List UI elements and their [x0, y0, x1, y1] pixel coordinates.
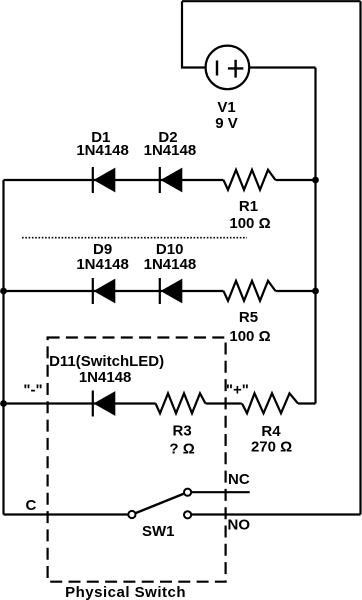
svg-text:D11(SwitchLED): D11(SwitchLED): [49, 353, 164, 370]
resistor R5: [224, 281, 276, 301]
resistor R3: [156, 393, 206, 413]
diode D1: [93, 167, 116, 193]
svg-text:? Ω: ? Ω: [169, 441, 194, 458]
wire: common C to switch pole: [4, 513, 129, 515]
svg-text:9 V: 9 V: [215, 115, 238, 132]
wire: top horizontal: [182, 0, 361, 2]
junction: row2 / left vertical: [0, 288, 7, 295]
svg-text:R1: R1: [239, 198, 258, 215]
svg-text:R3: R3: [173, 423, 192, 440]
junction: row3 / left vertical: [0, 400, 7, 407]
diode D11: [93, 391, 116, 417]
svg-text:R5: R5: [239, 309, 258, 326]
svg-text:SW1: SW1: [142, 523, 175, 540]
switch SW1 lever: [135, 493, 185, 513]
svg-text:"+": "+": [226, 382, 249, 399]
dashed enclosure: Physical Switch box: [48, 338, 226, 582]
svg-text:Physical Switch: Physical Switch: [65, 584, 186, 600]
wire: battery minus lead to top-left corner: [182, 1, 205, 67]
wire: row 3 (D11 R3 R4): [4, 402, 316, 404]
ellipsis dotted line (repeated stages): [22, 237, 247, 239]
wire: left vertical bus: [2, 180, 4, 515]
junction: row2 / inner vertical: [312, 288, 319, 295]
resistor R1: [224, 170, 276, 190]
wire: NC stub: [191, 491, 249, 493]
diode D2: [160, 167, 183, 193]
wire: outer right vertical: [359, 1, 361, 514]
svg-text:"-": "-": [23, 382, 42, 399]
switch SW1 NO contact: [184, 511, 191, 518]
svg-text:NC: NC: [228, 471, 250, 488]
svg-text:1N4148: 1N4148: [144, 142, 197, 159]
svg-text:C: C: [25, 497, 36, 514]
switch SW1 pole contact: [128, 511, 135, 518]
svg-text:100 Ω: 100 Ω: [229, 215, 270, 232]
wire: row 1 (D1 D2 R1): [4, 179, 316, 181]
junction: row1 / inner vertical: [312, 177, 319, 184]
svg-text:100 Ω: 100 Ω: [229, 328, 270, 345]
wire: battery plus lead to inner right vertical: [250, 66, 316, 68]
svg-text:1N4148: 1N4148: [144, 256, 197, 273]
wire: row 2 (D9 D10 R5): [4, 290, 316, 292]
svg-text:1N4148: 1N4148: [76, 142, 129, 159]
wire: NO contact to outer right vertical: [191, 513, 360, 515]
diode D9: [93, 278, 116, 304]
switch SW1 NC contact: [184, 489, 191, 496]
svg-text:1N4148: 1N4148: [76, 256, 129, 273]
voltage source V1: [206, 46, 250, 90]
svg-text:NO: NO: [228, 517, 251, 534]
svg-text:1N4148: 1N4148: [79, 369, 132, 386]
svg-text:270 Ω: 270 Ω: [251, 439, 292, 456]
wire: inner right vertical: [314, 68, 316, 404]
svg-text:R4: R4: [261, 423, 281, 440]
svg-text:V1: V1: [217, 99, 235, 116]
resistor R4: [242, 393, 298, 413]
diode D10: [160, 278, 183, 304]
